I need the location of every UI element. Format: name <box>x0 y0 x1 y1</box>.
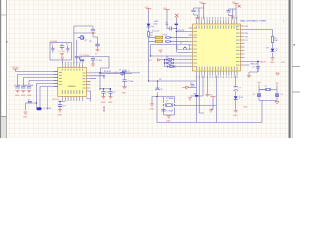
right scrollbar panel <box>289 0 301 138</box>
junction dots decoupling <box>99 72 100 73</box>
ground under qfp pin x207 <box>205 95 209 97</box>
svg-text:R? 1K: R? 1K <box>163 34 169 36</box>
polarized cap <box>234 87 238 91</box>
svg-text:VCC: VCC <box>281 62 286 64</box>
svg-text:GND: GND <box>58 114 63 116</box>
capacitor C left2 <box>21 85 27 97</box>
svg-text:3: 3 <box>283 20 284 22</box>
svg-text:VCC: VCC <box>200 2 205 4</box>
wire staircase to chip left pins <box>18 75 58 87</box>
capacitor C bl <box>28 101 32 103</box>
svg-text:R? 4.7K: R? 4.7K <box>104 71 112 73</box>
swd wires <box>245 62 259 76</box>
component on 73.5 wire <box>120 71 124 76</box>
QFP bottom pins <box>197 71 238 76</box>
resistor R yellow 1 <box>155 34 170 38</box>
wire verticals down to chip top pins <box>74 33 77 64</box>
cap col B <box>108 92 112 97</box>
power port above chip <box>61 57 63 59</box>
capacitor over transistor <box>91 30 95 31</box>
power VCC top1 <box>146 9 151 12</box>
svg-text:C?: C? <box>95 53 97 55</box>
svg-text:C?: C? <box>128 71 130 73</box>
svg-text:C? 104: C? 104 <box>59 51 65 53</box>
svg-text:C? 104: C? 104 <box>14 85 20 87</box>
LED right <box>271 49 275 52</box>
svg-text:GND: GND <box>243 107 248 109</box>
svg-text:VCC: VCC <box>163 8 168 10</box>
svg-text:D?: D? <box>166 56 168 58</box>
LED bottom <box>234 96 238 99</box>
svg-text:C? 104: C? 104 <box>96 60 102 62</box>
transistor Q? <box>78 36 88 43</box>
svg-text:VCC: VCC <box>209 95 214 97</box>
left chip pins left <box>54 72 58 87</box>
QFP inner pin name smudges top <box>196 25 237 29</box>
capacitor C left1 <box>14 85 20 97</box>
svg-text:C?: C? <box>106 92 108 94</box>
junction dots <box>36 32 175 105</box>
cap col C <box>122 80 126 82</box>
ground crystal left <box>150 104 154 106</box>
svg-text:LM4550: LM4550 <box>68 86 77 88</box>
left scrollbar panel <box>0 0 8 138</box>
port arrow RST <box>158 59 161 61</box>
left chip pins right <box>87 73 91 91</box>
svg-text:Bmp: Bmp <box>87 98 91 100</box>
cap col A <box>101 92 105 97</box>
svg-text:SWDIO: SWDIO <box>260 61 267 63</box>
svg-text:GND: GND <box>166 120 171 122</box>
svg-text:C?: C? <box>63 106 65 108</box>
crystal y1 <box>165 103 173 107</box>
cap 32k right <box>276 94 279 97</box>
QFP body <box>193 24 241 71</box>
caps crystal <box>161 110 165 111</box>
svg-text:Y? 8MHz: Y? 8MHz <box>166 98 173 100</box>
power VCC mid bottom <box>210 97 215 100</box>
svg-text:VCC: VCC <box>232 2 237 4</box>
left chip body <box>58 68 87 97</box>
wire VCC rail to left chip pins <box>16 69 58 72</box>
ground mid <box>159 50 163 52</box>
svg-text:C?: C? <box>281 94 283 96</box>
svg-text:C?: C? <box>66 44 68 46</box>
ground crystal mid <box>167 116 171 118</box>
right group <box>233 4 238 7</box>
QFP inner pin name smudges right <box>236 26 240 66</box>
svg-text:D?: D? <box>190 83 192 85</box>
svg-text:GND: GND <box>15 95 20 97</box>
resistor R yellow 2 <box>155 40 170 43</box>
svg-text:GND: GND <box>108 102 113 104</box>
svg-text:D?: D? <box>266 47 268 49</box>
jumper box <box>177 45 190 50</box>
diode pair mid <box>191 85 195 86</box>
svg-text:R?: R? <box>90 41 92 43</box>
svg-text:VCC_3.3: VCC_3.3 <box>152 30 159 32</box>
svg-text:D?: D? <box>241 97 243 99</box>
QFP right pins <box>241 26 245 65</box>
svg-text:L?: L? <box>119 69 121 71</box>
svg-text:blue: blue <box>154 24 158 26</box>
resistor R boxB <box>80 60 85 61</box>
svg-text:GND: GND <box>233 115 238 117</box>
wire <box>149 11 197 81</box>
ground at x190 <box>188 98 192 100</box>
svg-text:C? 22pF: C? 22pF <box>166 111 174 113</box>
svg-text:C?: C? <box>88 82 90 84</box>
crystal y2 <box>265 88 270 91</box>
svg-text:SWCLK: SWCLK <box>251 63 258 65</box>
wire box <box>26 103 37 111</box>
capacitor inside boxA right <box>66 46 69 53</box>
svg-text:C?: C? <box>253 94 255 96</box>
capacitor on x97.5 <box>95 44 99 46</box>
cap above row x124.5 <box>122 70 126 72</box>
wire loop over transistor <box>74 26 93 33</box>
power stubs faint <box>257 83 278 87</box>
cap swd <box>256 67 260 72</box>
wire parallel down <box>47 87 49 111</box>
svg-text:VCC3.3: VCC3.3 <box>12 67 20 69</box>
ground x97.5 <box>96 49 100 51</box>
wire right segment <box>93 34 98 49</box>
power VCC left <box>13 68 18 70</box>
power flag X <box>175 14 179 19</box>
power +cap branch mid <box>53 99 66 116</box>
svg-text:U?-GND: U?-GND <box>50 41 58 43</box>
ground right LED <box>271 58 275 60</box>
svg-text:VCC: VCC <box>145 7 150 9</box>
svg-text:VCC3.3: VCC3.3 <box>53 99 60 101</box>
left chip top outer pin number smudges <box>62 62 83 63</box>
wires from QFP left pins going left <box>149 32 189 67</box>
svg-text:C?: C? <box>166 101 168 103</box>
QFP left pins <box>189 28 193 67</box>
svg-text:GND: GND <box>23 117 28 119</box>
QFP bottom pin number smudges <box>196 76 237 78</box>
svg-text:104: 104 <box>165 24 168 26</box>
svg-text:C?: C? <box>252 66 254 68</box>
power VCC top2 <box>164 10 169 12</box>
tiny cap on vertical x76.8 <box>75 56 79 58</box>
capacitor inside boxA left <box>51 46 54 53</box>
ground bottom-left <box>24 112 28 114</box>
left group <box>201 4 206 7</box>
ground boxB <box>91 64 95 66</box>
ground arrow bottom right <box>275 101 279 104</box>
svg-text:GND: GND <box>122 93 127 95</box>
svg-text:GND: GND <box>21 95 26 97</box>
svg-text:Q?: Q? <box>85 40 88 42</box>
inductor/speaker blob <box>36 107 50 110</box>
wire horizontal y33 <box>74 32 95 34</box>
left chip side pin name smudges <box>59 72 86 89</box>
port arrow mid <box>186 86 189 89</box>
long vertical <box>175 19 177 52</box>
capacitor inside boxA mid <box>60 44 64 50</box>
cap 32k left <box>258 94 261 97</box>
svg-text:GND: GND <box>270 62 275 64</box>
svg-text:L? 12095: L? 12095 <box>43 108 51 110</box>
ground mid bottom x211 <box>209 110 213 112</box>
svg-text:J?: J? <box>180 43 182 45</box>
QFP inner pin name smudges left <box>194 28 197 67</box>
orange wire segment <box>91 32 96 33</box>
svg-text:C?: C? <box>28 100 30 102</box>
ground bottom <box>234 110 238 112</box>
net label blob <box>175 24 178 26</box>
svg-text:DMA1_CH3/USART1_TX(PA9): DMA1_CH3/USART1_TX(PA9) <box>240 19 267 22</box>
svg-text:GND: GND <box>27 95 32 97</box>
series cap <box>170 27 172 31</box>
QFP top pins <box>196 20 237 25</box>
QFP pin number smudges top <box>196 17 237 19</box>
left chip pins bottom <box>62 97 82 102</box>
QFP bottom inner vertical name smudges <box>196 67 237 71</box>
svg-text:C?: C? <box>196 11 198 13</box>
svg-text:R?: R? <box>79 58 81 60</box>
left chip inner pin number smudges <box>62 69 83 71</box>
capacitor boxB <box>91 59 95 64</box>
resistor R right <box>271 36 273 42</box>
sheet background with grid <box>0 0 300 138</box>
ground swd <box>247 75 251 77</box>
svg-text:C? 104: C? 104 <box>27 85 33 87</box>
small purple mark bottom center <box>103 107 105 112</box>
svg-text:C?: C? <box>160 89 162 91</box>
svg-text:GND: GND <box>150 109 155 111</box>
resistor R vertical <box>147 32 149 36</box>
left chip pins top <box>62 64 82 68</box>
esd diodes stack <box>166 58 175 68</box>
wire to resistor LED chain <box>245 30 273 58</box>
svg-text:Y?: Y? <box>265 86 267 88</box>
wire to chip lower-left pins <box>36 84 58 108</box>
capacitor C left3 <box>27 85 33 97</box>
left chip bottom inner name smudges <box>62 90 83 94</box>
svg-text:GND: GND <box>101 102 106 104</box>
svg-text:BOOT0: BOOT0 <box>178 30 184 32</box>
LED D? <box>147 21 159 27</box>
svg-text:C?: C? <box>51 44 53 46</box>
ground inside boxA <box>60 54 64 56</box>
electrolytic cap on long wire <box>157 81 159 97</box>
svg-text:C? 104: C? 104 <box>21 85 27 87</box>
svg-text:C?: C? <box>113 92 115 94</box>
svg-text:C?: C? <box>238 88 240 90</box>
net label blob under qfp <box>195 95 198 97</box>
svg-text:C? 104: C? 104 <box>127 81 133 83</box>
